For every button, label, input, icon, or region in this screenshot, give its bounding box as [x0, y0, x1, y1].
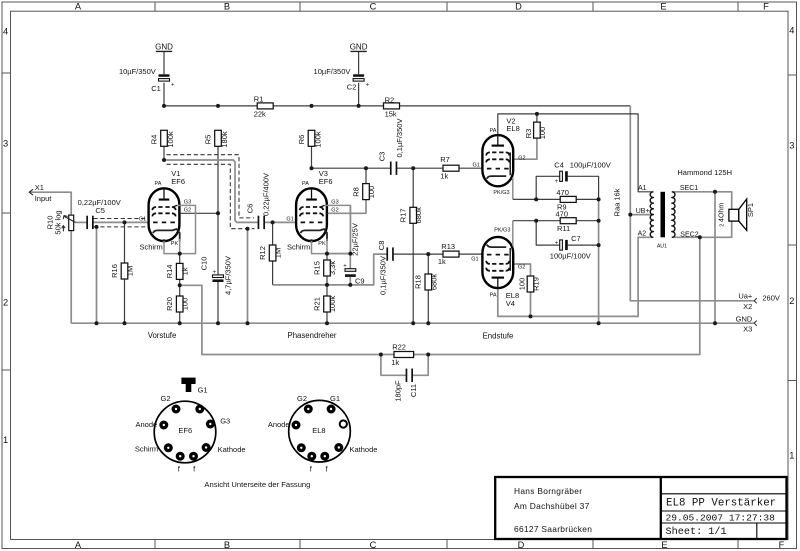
svg-text:Vorstufe: Vorstufe [148, 331, 177, 340]
ground symbol GND1 [155, 42, 173, 51]
wire R11 right lead [576, 220, 599, 222]
svg-text:EL8: EL8 [312, 426, 325, 435]
svg-text:C: C [370, 2, 377, 12]
capacitor C8 0,1uF/350V [377, 241, 394, 295]
svg-text:UB+: UB+ [636, 208, 650, 215]
wire R8 to V3 screen [328, 200, 366, 214]
capacitor C3 0,1uF/350V [378, 119, 404, 175]
svg-text:1M: 1M [126, 266, 135, 276]
wire R10 to ground bus [70, 231, 72, 324]
svg-text:G2: G2 [160, 394, 170, 403]
wire C10 to ground bus [217, 282, 219, 323]
svg-text:100µF/100V: 100µF/100V [570, 161, 611, 170]
resistor R8 100 [351, 184, 376, 200]
svg-text:GND: GND [350, 42, 368, 51]
svg-text:+: + [171, 83, 175, 89]
wire C5 to V1 grid [93, 221, 148, 223]
transformer AU1 Hammond 125H [636, 185, 699, 249]
svg-text:E: E [661, 540, 667, 550]
svg-text:EL8: EL8 [506, 124, 519, 133]
svg-text:R16: R16 [110, 264, 119, 278]
svg-text:Raa 16k: Raa 16k [613, 188, 622, 216]
svg-text:G2: G2 [184, 208, 191, 214]
wire V3 cathode row [327, 253, 350, 255]
svg-text:100k: 100k [313, 131, 322, 148]
wire V2 anode to transformer A1 [498, 114, 654, 192]
wire C1 to supply rail [163, 83, 165, 106]
svg-text:GND: GND [155, 42, 173, 51]
svg-text:C5: C5 [95, 206, 105, 215]
wire X1 input to R10 [29, 192, 71, 215]
svg-text:1: 1 [789, 450, 794, 460]
wire R14 to R20 node [179, 279, 181, 296]
svg-text:50k log: 50k log [53, 210, 62, 234]
svg-text:R12: R12 [258, 246, 267, 260]
EL8 socket bottom view [268, 394, 378, 473]
vacuum tube V3 EF6 [286, 169, 350, 254]
svg-text:180k: 180k [220, 131, 229, 148]
wire R21 to ground bus [326, 312, 328, 323]
wire C8 to R13 [393, 253, 443, 255]
resistor R1 22k [254, 95, 274, 119]
svg-text:66127 Saarbrücken: 66127 Saarbrücken [514, 524, 592, 534]
wire R18 from R13 node [427, 254, 429, 274]
svg-text:C8: C8 [377, 241, 386, 251]
resistor R9 470 [556, 188, 576, 212]
svg-text:Hans Borngräber: Hans Borngräber [514, 486, 582, 496]
svg-text:180pF: 180pF [393, 380, 402, 402]
svg-text:Anode: Anode [136, 420, 158, 429]
svg-text:PK: PK [171, 241, 179, 247]
svg-text:EF6: EF6 [319, 177, 333, 186]
svg-text:A2: A2 [638, 231, 647, 238]
resistor R20 100 [165, 296, 190, 312]
wire R18 to ground bus [427, 290, 429, 323]
wire R17 to ground bus [412, 223, 414, 323]
svg-text:Am Dachshübel 37: Am Dachshübel 37 [514, 501, 590, 511]
svg-text:Endstufe: Endstufe [483, 331, 514, 340]
svg-text:R1: R1 [254, 95, 264, 104]
svg-text:10µF/350V: 10µF/350V [314, 67, 351, 76]
svg-text:X1: X1 [35, 183, 44, 192]
svg-text:0,22µF/400V: 0,22µF/400V [262, 173, 271, 216]
wire V4 cathode row [513, 220, 560, 222]
svg-text:4Ohm: 4Ohm [719, 203, 726, 222]
wire R3 to anode line [536, 114, 538, 122]
svg-text:AU1: AU1 [657, 243, 667, 249]
capacitor C5 0,22uF/100V [78, 198, 121, 229]
svg-text:470: 470 [556, 188, 569, 197]
capacitor C2 10uF/350V [314, 67, 370, 92]
svg-text:Anode: Anode [268, 420, 290, 429]
svg-text:R14: R14 [165, 265, 174, 279]
svg-text:C4: C4 [554, 161, 564, 170]
wire C4 right lead [568, 176, 599, 199]
capacitor C6 0,22uF/400V [245, 173, 270, 229]
svg-text:2: 2 [720, 224, 726, 227]
svg-text:C9: C9 [355, 277, 365, 286]
terminal X3 GND [736, 314, 757, 333]
svg-text:C1: C1 [151, 84, 161, 93]
svg-text:R3: R3 [524, 129, 533, 139]
svg-text:2: 2 [3, 297, 8, 307]
svg-text:V4: V4 [506, 299, 515, 308]
svg-text:EF6: EF6 [171, 177, 185, 186]
resistor R22 1k [391, 342, 413, 367]
svg-text:100µF/100V: 100µF/100V [550, 252, 591, 261]
wire C7 right lead [568, 244, 599, 246]
svg-text:R21: R21 [312, 297, 321, 311]
wire C9 from G3 strap [349, 254, 351, 269]
svg-text:10µF/350V: 10µF/350V [119, 67, 156, 76]
resistor R18 680k [414, 274, 439, 291]
svg-text:100: 100 [538, 127, 547, 140]
EF6 socket bottom view [135, 378, 246, 474]
resistor R15 3,3k [312, 260, 337, 276]
svg-text:1k: 1k [440, 171, 448, 180]
wire C7 left lead [536, 221, 560, 245]
svg-text:SEC2: SEC2 [680, 231, 698, 238]
svg-text:SP1: SP1 [746, 203, 755, 217]
potentiometer R10 50k log [46, 210, 76, 234]
svg-text:Sheet: 1/1: Sheet: 1/1 [666, 526, 727, 538]
svg-text:22µF/25V: 22µF/25V [351, 223, 360, 256]
terminal X2 Ua+ 260V [738, 292, 780, 312]
resistor R3 100 [524, 122, 547, 139]
svg-text:+: + [343, 263, 347, 269]
terminal X1 Input [29, 183, 52, 203]
svg-text:Kathode: Kathode [350, 445, 378, 454]
svg-text:3,3k: 3,3k [328, 261, 337, 275]
svg-text:R13: R13 [441, 242, 455, 251]
svg-text:B: B [224, 540, 230, 550]
svg-text:R20: R20 [165, 297, 174, 311]
wire C2 to supply rail [358, 83, 360, 106]
resistor R21 100k [312, 296, 337, 313]
svg-text:C7: C7 [571, 234, 581, 243]
wire R13 to V4 grid [459, 253, 482, 255]
svg-text:G2: G2 [518, 264, 525, 270]
svg-text:C: C [370, 540, 377, 550]
wire C4 left lead [536, 176, 560, 199]
svg-text:B: B [224, 2, 230, 12]
svg-text:22k: 22k [254, 110, 266, 119]
svg-text:Input: Input [35, 194, 53, 203]
wire lower row to C8 [273, 254, 388, 285]
svg-text:260V: 260V [762, 294, 780, 303]
svg-text:R18: R18 [414, 275, 423, 289]
input cable shield (dashed) [94, 218, 149, 220]
svg-text:+: + [366, 83, 370, 89]
svg-text:100: 100 [517, 278, 526, 291]
wire SEC1 to speaker [672, 192, 732, 210]
svg-text:100k: 100k [328, 296, 337, 313]
svg-text:D: D [518, 540, 525, 550]
svg-text:R8: R8 [351, 187, 360, 197]
resistor R7 1k [440, 155, 459, 180]
svg-text:Schirm: Schirm [287, 243, 310, 252]
wire C9 to lower row [349, 277, 351, 285]
vacuum tube V4 EL8 [471, 221, 525, 309]
wire GND2 to C2 [358, 52, 360, 75]
ground symbol GND2 [350, 42, 368, 51]
svg-text:G1: G1 [198, 385, 208, 394]
shielded wire V1 anode to C6 [164, 160, 258, 222]
wire C6 to V3 grid [264, 221, 295, 223]
wire V4 anode to transformer A2 [498, 237, 654, 316]
resistor R2 15k [384, 95, 400, 118]
resistor R6 100k [297, 130, 322, 147]
svg-text:1k: 1k [181, 267, 190, 275]
wire C3 to R7 [396, 167, 443, 169]
svg-text:G1: G1 [139, 217, 146, 223]
capacitor C9 22uF/25V [343, 223, 364, 285]
resistor R13 1k [438, 242, 459, 266]
svg-text:0,1µF/350V: 0,1µF/350V [395, 119, 404, 158]
wire R17 from C3 node [412, 168, 414, 207]
svg-text:R19: R19 [532, 277, 541, 291]
wire R22 left lead [381, 354, 394, 356]
svg-text:100: 100 [181, 298, 190, 311]
wire input shield to ground [96, 227, 98, 323]
wire R9 right lead [576, 198, 599, 200]
svg-text:C10: C10 [200, 257, 209, 271]
svg-text:R15: R15 [312, 261, 321, 275]
wire GND1 to C1 [163, 52, 165, 75]
svg-text:G2: G2 [518, 155, 525, 161]
svg-text:+: + [213, 270, 217, 276]
wire V2 cathode row [513, 198, 560, 200]
wire R6 to V3 anode [311, 146, 313, 168]
svg-text:G1: G1 [472, 163, 479, 169]
wire UB+ tap to transformer [630, 214, 653, 216]
wire Ua+ feed down to X2 [630, 106, 754, 301]
svg-text:Schirm: Schirm [139, 243, 162, 252]
resistor R12 1M [258, 245, 283, 261]
svg-text:R7: R7 [440, 155, 450, 164]
svg-text:G2: G2 [297, 394, 307, 403]
svg-text:R11: R11 [557, 224, 570, 233]
svg-text:EF6: EF6 [178, 426, 192, 435]
svg-text:E: E [660, 2, 666, 12]
svg-text:1: 1 [3, 435, 8, 445]
svg-text:G3: G3 [331, 200, 338, 206]
svg-text:29.05.2007 17:27:38: 29.05.2007 17:27:38 [666, 513, 776, 524]
svg-text:G1: G1 [286, 217, 293, 223]
wire V4 screen to R19 [514, 264, 530, 276]
svg-text:1M: 1M [274, 248, 283, 258]
svg-text:G2: G2 [331, 208, 338, 214]
svg-text:C6: C6 [245, 204, 254, 214]
svg-text:680k: 680k [429, 274, 438, 291]
svg-text:+: + [555, 241, 559, 247]
wire R12 from grid node [272, 222, 274, 245]
resistor R14 1k [165, 263, 190, 279]
svg-text:2: 2 [789, 296, 794, 306]
wire supply rail [164, 105, 630, 107]
svg-text:4: 4 [789, 25, 794, 35]
svg-text:15k: 15k [385, 110, 397, 119]
resistor R5 180k [204, 130, 229, 147]
svg-text:0,1µF/350V: 0,1µF/350V [378, 256, 387, 295]
svg-text:1k: 1k [438, 257, 446, 266]
wire R15 to cathode node [326, 254, 328, 260]
wire R15 to lower row [326, 276, 328, 285]
wire R19 to anode line [530, 292, 532, 316]
svg-text:EL8 PP Verstärker: EL8 PP Verstärker [666, 498, 776, 510]
svg-text:Kathode: Kathode [218, 445, 246, 454]
svg-text:R6: R6 [297, 135, 306, 145]
svg-text:470: 470 [556, 210, 569, 219]
wire V3 G3 strap down [349, 205, 351, 253]
wire R5 to V1 G2 node [217, 146, 219, 213]
svg-text:C2: C2 [347, 83, 357, 92]
wire R7 to V2 grid [459, 167, 482, 169]
capacitor C1 10uF/350V [119, 67, 175, 93]
wire C11 right lead [413, 355, 428, 376]
title block [495, 477, 786, 539]
svg-text:A: A [75, 540, 82, 550]
svg-text:X2: X2 [743, 302, 752, 311]
wire R14 to cathode node [179, 254, 181, 264]
wire R20 to ground bus [179, 312, 181, 323]
svg-text:100: 100 [367, 186, 376, 199]
wire feedback from R14/R20 node [180, 285, 381, 354]
svg-text:G1: G1 [471, 256, 478, 262]
svg-text:G3: G3 [184, 200, 191, 206]
wire R12 to lower node [272, 261, 274, 285]
wire feedback from SEC2 [428, 237, 700, 354]
svg-text:PA: PA [489, 128, 496, 134]
svg-text:A1: A1 [638, 185, 647, 192]
resistor R4 100k [150, 130, 175, 147]
svg-text:R22: R22 [392, 342, 406, 351]
svg-text:PK/G3: PK/G3 [493, 190, 509, 196]
svg-text:3: 3 [789, 140, 794, 150]
wire R21 from lower row [326, 285, 328, 296]
resistor R16 1M [110, 263, 135, 279]
svg-text:PK/G3: PK/G3 [494, 228, 510, 234]
svg-text:PA: PA [154, 181, 161, 187]
resistor R17 680k [399, 207, 424, 224]
svg-text:Schirm: Schirm [135, 445, 158, 454]
capacitor C10 4,7uF/350V [200, 256, 233, 295]
wire SEC1 to ground bus [714, 192, 716, 323]
wire SEC2 to speaker [672, 221, 732, 237]
svg-text:PA: PA [302, 181, 309, 187]
resistor R11 470 [556, 210, 577, 234]
svg-text:680k: 680k [414, 207, 423, 224]
svg-text:Ansicht Unterseite der Fassung: Ansicht Unterseite der Fassung [204, 480, 310, 489]
svg-text:R4: R4 [150, 135, 159, 145]
anode cable shield (dashed) [167, 155, 255, 218]
wire C11 left lead [381, 355, 406, 376]
svg-text:F: F [763, 2, 769, 12]
capacitor C4 100uF/100V [554, 161, 611, 185]
wire R10 wiper to C5 [75, 221, 87, 223]
svg-text:1k: 1k [391, 358, 399, 367]
svg-text:PK: PK [318, 241, 326, 247]
svg-text:3: 3 [3, 138, 8, 148]
svg-text:G1: G1 [330, 394, 340, 403]
svg-text:PA: PA [490, 292, 497, 298]
svg-text:Hammond 125H: Hammond 125H [677, 168, 732, 177]
svg-text:Phasendreher: Phasendreher [288, 331, 337, 340]
wire cathode network to ground bus [598, 199, 600, 323]
wire anode bus V3 to C3 [312, 167, 391, 169]
wire ground bus [71, 322, 754, 324]
vacuum tube V1 EF6 [139, 169, 196, 254]
svg-text:A: A [75, 2, 82, 12]
svg-text:F: F [779, 540, 785, 550]
svg-text:4: 4 [3, 26, 8, 36]
wire R22 right lead [414, 354, 429, 356]
svg-text:D: D [515, 2, 522, 12]
capacitor C11 180pF [393, 369, 418, 402]
svg-text:R2: R2 [385, 95, 395, 104]
svg-text:4,7µF/350V: 4,7µF/350V [224, 256, 233, 295]
svg-text:SEC1: SEC1 [680, 185, 698, 192]
svg-text:X3: X3 [743, 325, 752, 334]
svg-text:R17: R17 [399, 208, 408, 222]
wire V1 G2 node to C10 [217, 213, 219, 275]
wire R16 to grid wire [124, 222, 126, 263]
svg-text:Ua+: Ua+ [738, 292, 753, 301]
wire V2 screen to R3 [514, 138, 537, 159]
vacuum tube V2 EL8 [472, 117, 525, 200]
svg-text:+: + [555, 179, 559, 185]
svg-text:GND: GND [736, 314, 753, 323]
svg-text:100k: 100k [166, 131, 175, 148]
wire R4 to V1 anode [163, 146, 165, 160]
wire R16 to ground bus [124, 279, 126, 323]
svg-text:C11: C11 [409, 384, 418, 397]
resistor R19 100 [517, 276, 540, 292]
speaker SP1 4Ohm [719, 199, 755, 230]
capacitor C7 100uF/100V [550, 234, 591, 261]
wire junctions [95, 104, 718, 357]
wire V1 G2 to junction [180, 212, 218, 214]
wire anode shield to ground [247, 229, 249, 324]
svg-text:G3: G3 [220, 417, 230, 426]
wire R8 from anode bus [365, 168, 367, 183]
svg-text:C3: C3 [378, 152, 387, 162]
svg-text:R5: R5 [204, 135, 213, 145]
